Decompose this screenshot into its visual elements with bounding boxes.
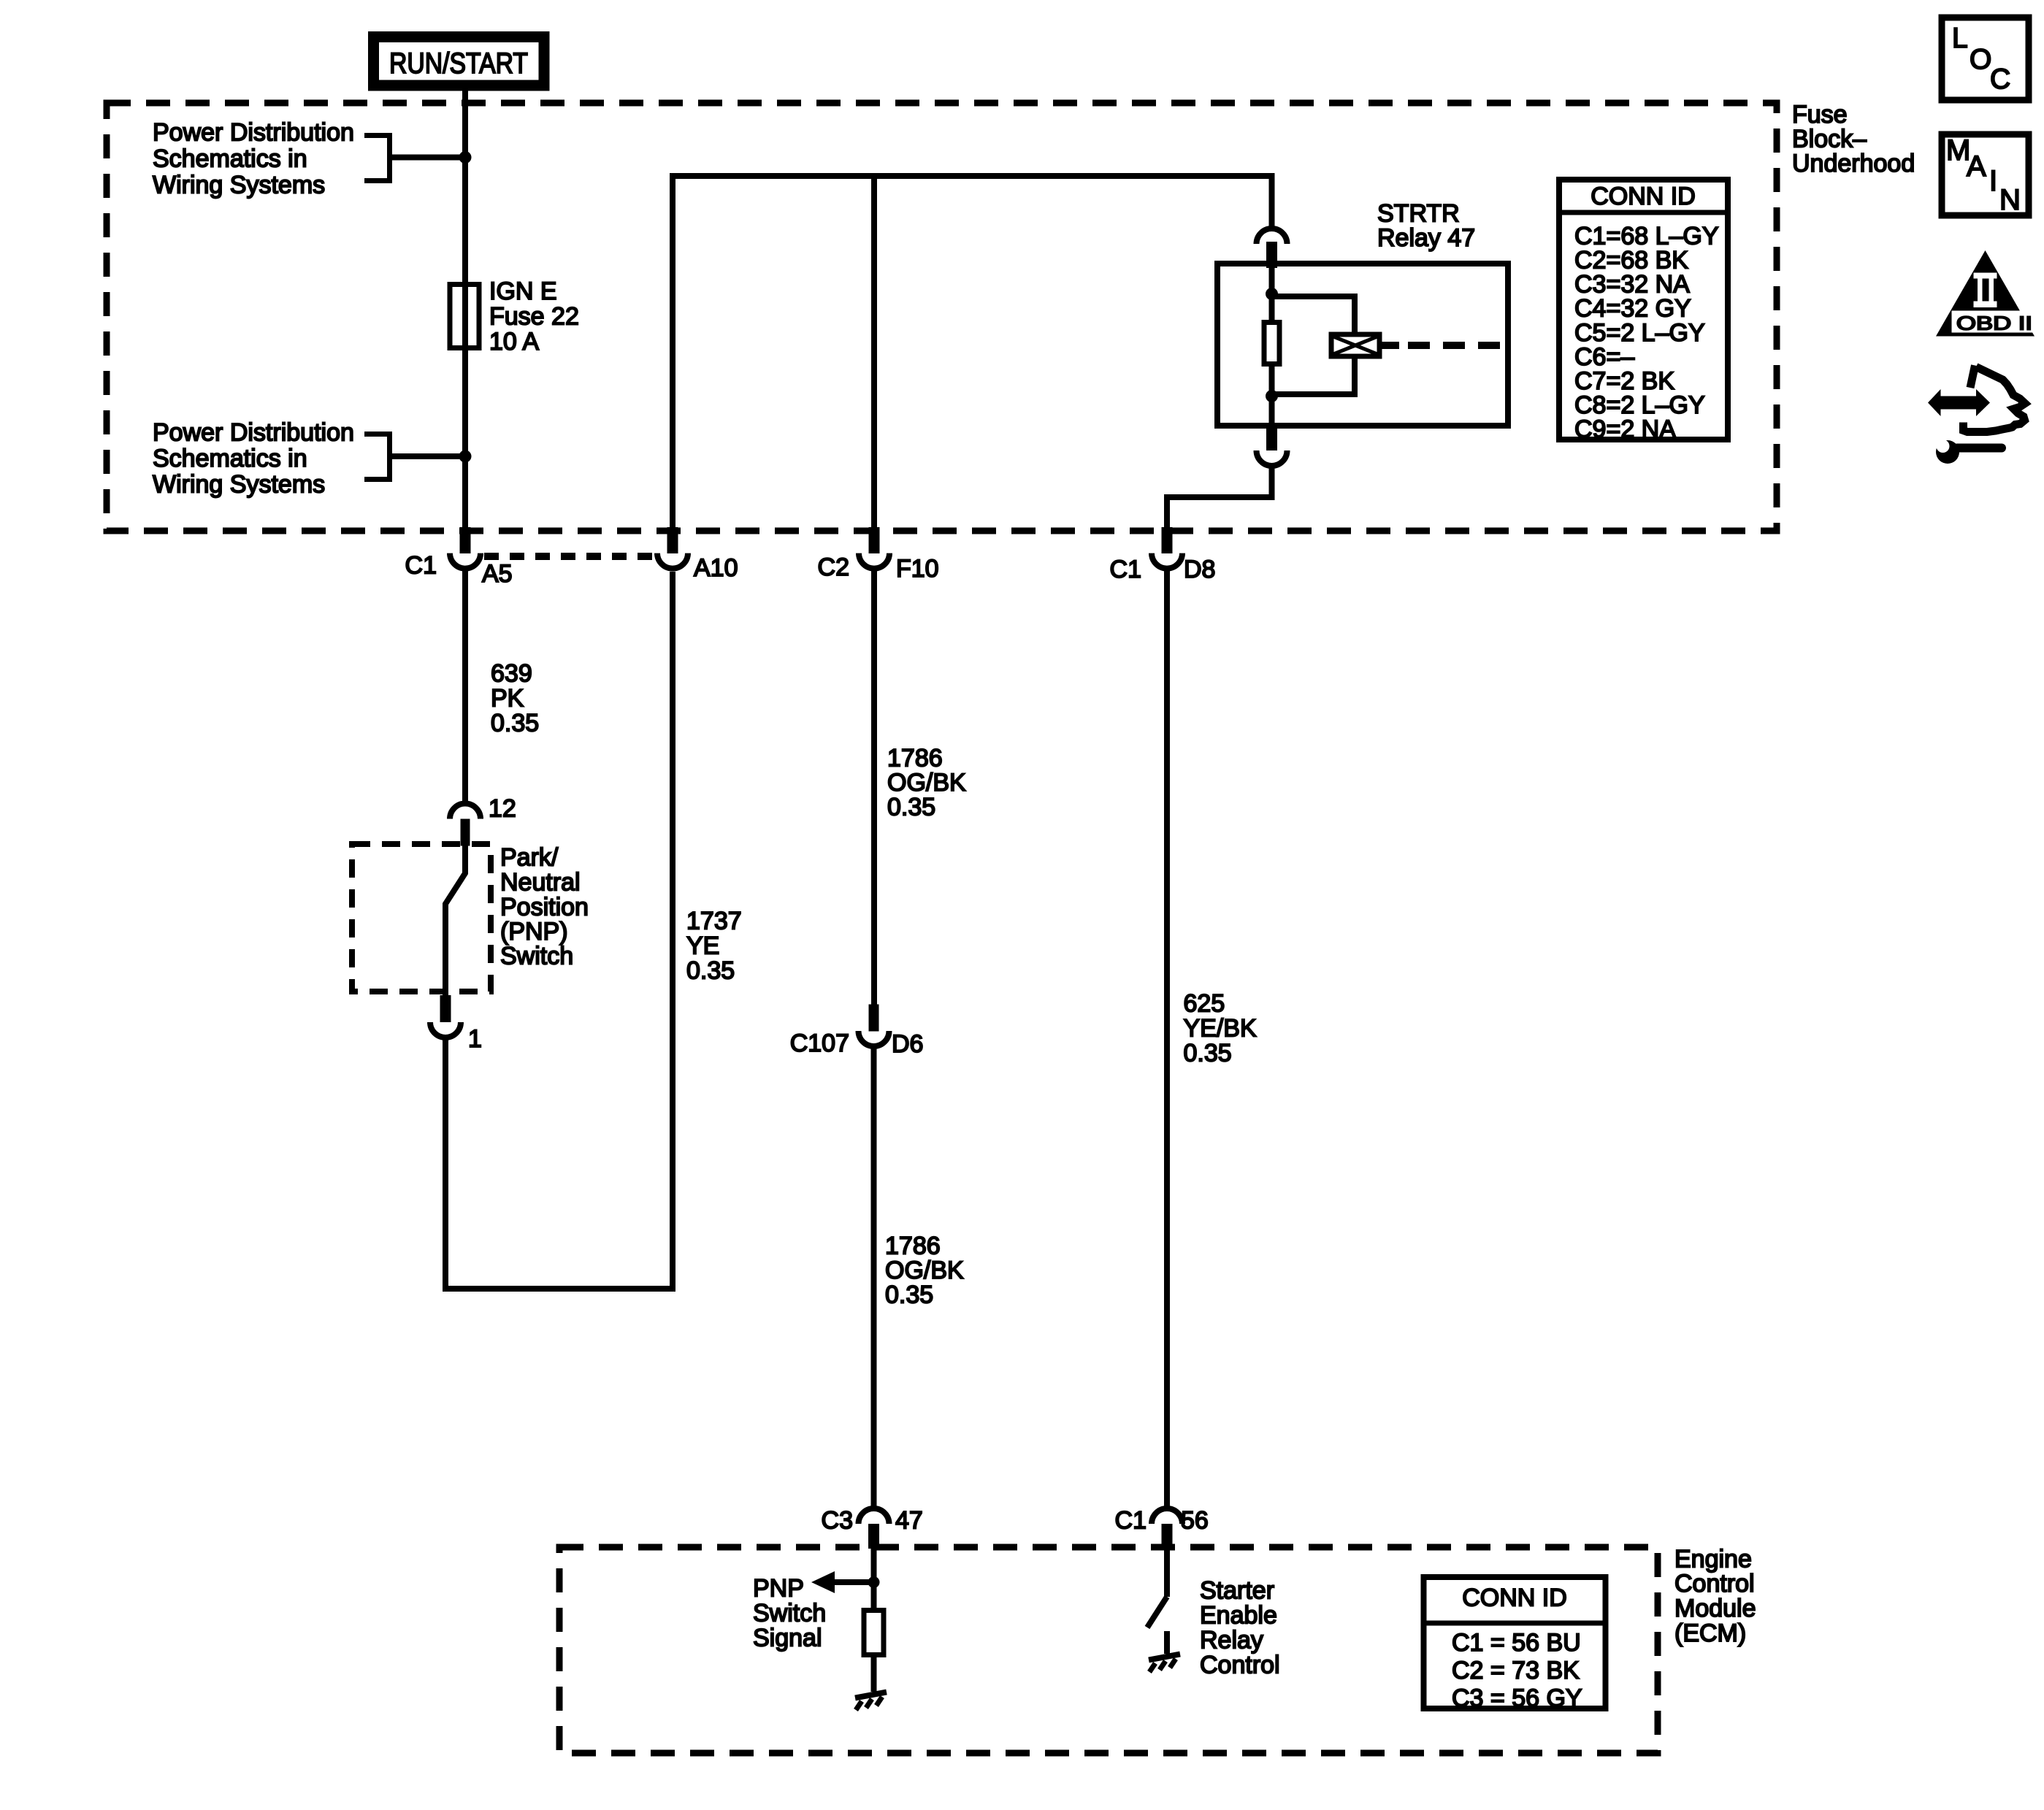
svg-text:1786: 1786: [885, 1232, 941, 1260]
svg-text:OG/BK: OG/BK: [885, 1257, 964, 1284]
wire resistor to ground: [871, 1657, 877, 1692]
svg-text:A5: A5: [482, 560, 513, 588]
node relay junction upper: [1266, 288, 1278, 300]
svg-text:(ECM): (ECM): [1674, 1619, 1746, 1647]
svg-text:0.35: 0.35: [686, 957, 735, 985]
svg-text:Control: Control: [1674, 1570, 1755, 1598]
fuse IGN E Fuse 22: [450, 277, 579, 356]
wire relay coil loop lower: [1274, 356, 1355, 394]
svg-text:C1 = 56 BU: C1 = 56 BU: [1452, 1629, 1581, 1657]
wire top horizontal bus: [670, 173, 1275, 179]
svg-text:I: I: [1989, 165, 1997, 197]
relay STRTR Relay 47 box: [1217, 264, 1508, 426]
connector C1 D8: [1110, 527, 1216, 583]
label wire 639 PK 0.35: [491, 660, 539, 737]
wire loop from connector 1 to A10: [445, 572, 673, 1289]
wire relay actuator dashed link: [1379, 342, 1505, 349]
node ECM pnp junction: [868, 1576, 880, 1588]
icon service vehicle outline: [1964, 366, 2026, 432]
svg-text:Schematics in: Schematics in: [153, 145, 307, 172]
svg-text:1737: 1737: [686, 908, 742, 935]
svg-text:Control: Control: [1200, 1652, 1280, 1679]
svg-text:Fuse 22: Fuse 22: [489, 303, 579, 331]
svg-text:Starter: Starter: [1200, 1577, 1274, 1605]
svg-text:OG/BK: OG/BK: [887, 769, 966, 797]
relay coil element: [1331, 334, 1379, 356]
label wire 1786 OG/BK 0.35 upper: [887, 745, 966, 821]
svg-text:0.35: 0.35: [1184, 1040, 1232, 1067]
svg-text:0.35: 0.35: [887, 794, 935, 821]
node RUN/START box: [374, 37, 545, 86]
connector C107 D6: [790, 1005, 924, 1059]
svg-text:Enable: Enable: [1200, 1602, 1277, 1630]
svg-text:Fuse: Fuse: [1792, 101, 1848, 129]
svg-text:625: 625: [1184, 990, 1225, 1018]
connector C2 F10: [818, 527, 939, 583]
svg-text:Park/: Park/: [500, 844, 559, 872]
label PNP Switch Signal: [753, 1575, 826, 1652]
label Fuse Block-Underhood: [1792, 101, 1915, 177]
svg-text:C2: C2: [818, 553, 849, 581]
svg-text:O: O: [1970, 44, 1991, 75]
svg-text:639: 639: [491, 660, 532, 688]
svg-text:0.35: 0.35: [491, 710, 539, 737]
table CONN ID ECM: [1421, 1577, 1609, 1712]
svg-text:Position: Position: [500, 894, 589, 921]
connector C1 A5: [405, 527, 513, 588]
label power distribution upper: [153, 118, 354, 199]
connector 1: [430, 995, 482, 1053]
svg-text:Power Distribution: Power Distribution: [153, 418, 354, 446]
label power distribution lower: [153, 418, 354, 498]
svg-text:CONN ID: CONN ID: [1591, 183, 1696, 210]
wire relay feed drop: [1269, 176, 1275, 227]
label Engine Control Module (ECM): [1674, 1546, 1756, 1648]
svg-text:C2 = 73 BK: C2 = 73 BK: [1452, 1657, 1580, 1684]
svg-text:D6: D6: [892, 1030, 923, 1058]
svg-text:C1: C1: [405, 552, 437, 580]
svg-text:0.35: 0.35: [885, 1281, 933, 1309]
svg-text:C9=2 NA: C9=2 NA: [1574, 415, 1676, 443]
wire A10 drop inside fuse block: [670, 176, 675, 527]
svg-text:C: C: [1990, 64, 2010, 95]
switch starter enable relay driver: [1147, 1549, 1167, 1654]
svg-text:RUN/START: RUN/START: [389, 47, 528, 80]
ground ECM pnp: [855, 1692, 887, 1711]
svg-text:Block–: Block–: [1792, 126, 1867, 153]
svg-text:PNP: PNP: [753, 1575, 804, 1603]
svg-text:Wiring Systems: Wiring Systems: [153, 470, 325, 498]
svg-text:Wiring Systems: Wiring Systems: [153, 171, 325, 199]
svg-text:Switch: Switch: [753, 1600, 826, 1627]
svg-text:L: L: [1952, 23, 1968, 54]
wire branch bracket upper: [364, 133, 465, 183]
svg-text:Switch: Switch: [500, 943, 573, 970]
svg-text:Schematics in: Schematics in: [153, 445, 307, 472]
wire from RUN/START through fuse to connector A5: [462, 85, 468, 527]
svg-text:YE/BK: YE/BK: [1184, 1015, 1257, 1043]
node junction dot upper: [459, 151, 472, 164]
svg-text:C1: C1: [1110, 556, 1141, 583]
wire PNP switch lever: [445, 845, 465, 995]
svg-text:C1: C1: [1115, 1507, 1147, 1535]
svg-text:Power Distribution: Power Distribution: [153, 118, 354, 146]
resistor relay coil suppressor: [1264, 323, 1279, 364]
icon LOC box: [1942, 18, 2029, 100]
svg-text:47: 47: [895, 1507, 923, 1535]
wire relay internal vertical: [1269, 268, 1275, 320]
node relay junction lower: [1266, 390, 1278, 402]
label Starter Enable Relay Control: [1200, 1577, 1280, 1679]
fuse block underhood dashed box: [107, 103, 1777, 531]
connector A10: [657, 527, 738, 582]
svg-text:1786: 1786: [887, 745, 943, 772]
svg-text:IGN E: IGN E: [489, 277, 557, 305]
svg-text:Engine: Engine: [1674, 1546, 1752, 1573]
icon wrench: [1936, 440, 2002, 464]
wire relay coil loop upper: [1274, 296, 1355, 334]
ECM dashed box: [559, 1547, 1658, 1753]
wire 639 PK from A5 to PNP switch: [462, 569, 468, 803]
ground ECM switch: [1149, 1654, 1180, 1673]
svg-text:D8: D8: [1184, 556, 1215, 583]
svg-text:Neutral: Neutral: [500, 869, 581, 897]
svg-text:YE: YE: [686, 932, 719, 960]
svg-text:C107: C107: [790, 1029, 849, 1057]
wire 1786 OG/BK upper segment: [871, 569, 877, 1005]
svg-text:Relay 47: Relay 47: [1377, 224, 1475, 252]
svg-text:(PNP): (PNP): [500, 918, 568, 946]
svg-text:1: 1: [468, 1025, 482, 1053]
svg-text:Underhood: Underhood: [1792, 150, 1915, 177]
table CONN ID fuse block: [1556, 180, 1731, 443]
svg-text:56: 56: [1181, 1507, 1209, 1535]
wire dashed connector row link: [484, 553, 654, 560]
label wire 625 YE/BK 0.35: [1184, 990, 1257, 1067]
icon OBD II triangle: [1936, 250, 2038, 337]
label wire 1786 OG/BK 0.35 lower: [885, 1232, 964, 1309]
wire relay output to D8: [1167, 464, 1272, 527]
wire branch bracket lower: [364, 432, 465, 482]
svg-text:F10: F10: [896, 555, 939, 583]
svg-text:C3 = 56 GY: C3 = 56 GY: [1452, 1684, 1582, 1712]
label STRTR Relay 47: [1377, 200, 1475, 253]
svg-text:OBD II: OBD II: [1956, 312, 2032, 334]
svg-text:STRTR: STRTR: [1377, 200, 1460, 228]
svg-text:10 A: 10 A: [489, 328, 539, 356]
svg-text:Module: Module: [1674, 1595, 1756, 1622]
icon MAIN box: [1942, 134, 2029, 216]
connector C1 56: [1115, 1507, 1209, 1549]
wire ECM pnp input: [871, 1549, 877, 1608]
svg-text:12: 12: [489, 795, 516, 823]
label wire 1737 YE 0.35: [686, 908, 742, 985]
resistor ECM pull: [864, 1611, 884, 1655]
relay top inline connector: [1257, 229, 1287, 268]
svg-text:C3: C3: [822, 1507, 853, 1535]
wire pnp signal arrow: [811, 1571, 874, 1593]
connector 12: [450, 795, 516, 846]
connector C3 47: [822, 1507, 923, 1549]
svg-text:CONN ID: CONN ID: [1462, 1584, 1567, 1612]
svg-text:Relay: Relay: [1200, 1627, 1263, 1654]
svg-text:A10: A10: [694, 554, 738, 582]
svg-text:A: A: [1967, 150, 1986, 183]
node junction dot lower: [459, 450, 472, 463]
wire 625 YE/BK from D8 to ECM: [1164, 569, 1170, 1508]
svg-text:Signal: Signal: [753, 1625, 822, 1652]
icon double arrow: [1928, 389, 1990, 416]
PNP switch dashed box: [352, 844, 491, 992]
svg-text:N: N: [1999, 184, 2021, 216]
wire F10 drop inside fuse block: [871, 176, 877, 527]
wire 1786 OG/BK lower segment: [871, 1046, 877, 1508]
wire resistor bottom: [1269, 367, 1275, 426]
relay bottom inline connector: [1257, 426, 1287, 466]
label Park/Neutral Position (PNP) Switch: [500, 844, 589, 970]
svg-text:PK: PK: [491, 685, 524, 713]
